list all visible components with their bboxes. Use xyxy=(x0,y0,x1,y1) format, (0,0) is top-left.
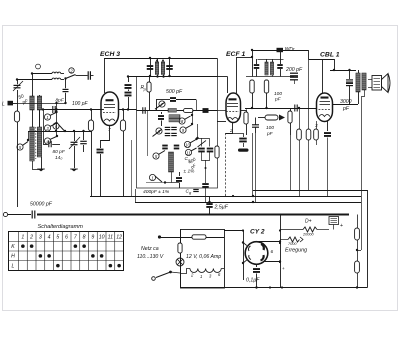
tube CBL1 electrodes xyxy=(320,101,331,103)
wire padder top xyxy=(196,137,198,139)
component field coil plus xyxy=(329,217,339,225)
wire osc bottom interior xyxy=(146,182,165,184)
resistor grid leak CBL1 xyxy=(288,111,292,123)
svg-text:1: 1 xyxy=(46,115,48,120)
coil L1 primary xyxy=(30,96,34,110)
capacitor arrow diode xyxy=(279,115,285,121)
terminal antenna earth xyxy=(3,212,7,216)
node divider mid xyxy=(356,249,358,251)
svg-text:1: 1 xyxy=(151,175,153,180)
resistor field 20000 xyxy=(303,227,317,232)
coil osc tank xyxy=(169,152,174,172)
svg-text:ECH 3: ECH 3 xyxy=(100,51,120,58)
ground L2 xyxy=(38,169,44,171)
svg-text:K: K xyxy=(11,244,15,250)
wire ECF1 screen resistor xyxy=(241,110,247,112)
wire mid drop x131 xyxy=(131,140,133,196)
coil IFT2 winding b xyxy=(270,62,273,75)
wire antenna top lower y79.5 xyxy=(17,79,52,81)
svg-text:1: 1 xyxy=(21,234,24,240)
wire osc mid vertical xyxy=(192,111,194,125)
wire IFT1 bottom xyxy=(128,76,185,78)
tube CY2 anodes xyxy=(261,244,264,250)
coil output transformer primary xyxy=(358,70,360,73)
switch 5 xyxy=(17,144,23,150)
wire heavy ground bus xyxy=(37,213,349,215)
wire right column xyxy=(357,214,359,216)
svg-text:100: 100 xyxy=(274,91,282,97)
coil IFT1 primary xyxy=(157,58,159,62)
capacitor ECH3 cathode bypass xyxy=(97,149,104,151)
coil antenna coupling upper xyxy=(52,72,61,73)
node switch stack xyxy=(42,108,44,110)
node bottom right xyxy=(356,286,358,288)
wire rail verticals xyxy=(135,189,137,202)
capacitor IFT1 trimmer left xyxy=(150,58,152,76)
coil IFT2 winding a xyxy=(265,62,268,75)
capacitor fixed pad xyxy=(80,140,87,142)
svg-text:+: + xyxy=(340,223,343,229)
coil osc coupling xyxy=(168,109,177,113)
wire ECF1 plate xyxy=(236,57,238,93)
box oscillator section xyxy=(137,77,218,189)
wire erregung drop xyxy=(280,275,330,277)
capacitor IFT1 trimmer right xyxy=(169,58,171,76)
capacitor osc series xyxy=(142,107,144,114)
resistor IFT2 right xyxy=(264,80,268,93)
resistor IFT2 left xyxy=(252,77,254,81)
wire grid line CBL1 xyxy=(245,108,317,110)
resistor ECH3 left bias xyxy=(91,110,93,121)
capacitor 8pF xyxy=(63,88,69,90)
svg-text:3000: 3000 xyxy=(340,99,352,105)
coil L2 primary xyxy=(30,127,34,161)
svg-text:± 1%: ± 1% xyxy=(184,169,196,175)
resistor CBL1 bias 2 xyxy=(308,59,310,129)
wire ECH3 plate to IFT xyxy=(104,58,106,93)
wire output top y70 xyxy=(334,59,336,70)
wire CY2 anode right xyxy=(259,241,281,243)
wire ECH3 cathode xyxy=(101,126,110,149)
wire grid y109 xyxy=(43,109,102,111)
capacitor 3000pF xyxy=(349,70,351,79)
ground ECF1 cathode blob xyxy=(238,149,249,152)
wire transformer to rectifier xyxy=(224,230,243,232)
coil tracking upper xyxy=(169,115,180,118)
capacitor grid blocking stack xyxy=(128,77,130,83)
lamp dial xyxy=(176,258,184,266)
speaker xyxy=(372,76,382,91)
wire switch common xyxy=(56,103,58,136)
tube ECF1 envelope xyxy=(226,93,241,123)
svg-text:5: 5 xyxy=(56,234,59,240)
capacitor coupling CBL1 xyxy=(294,105,296,112)
coil L2 secondary xyxy=(37,127,41,157)
svg-text:1: 1 xyxy=(200,274,202,279)
wire IFT2 verticals xyxy=(252,50,254,77)
svg-text:+: + xyxy=(282,266,285,271)
switch 3 band xyxy=(44,125,50,131)
capacitor osc to ground xyxy=(202,183,209,185)
wire choke top y50 xyxy=(252,50,295,52)
switch mains xyxy=(169,271,172,274)
svg-text:H: H xyxy=(11,254,15,260)
svg-text:2,5µF: 2,5µF xyxy=(214,205,229,211)
svg-text:100 pF: 100 pF xyxy=(72,101,89,107)
svg-text:10: 10 xyxy=(185,142,190,147)
wire ECH3 out xyxy=(118,109,137,111)
capacitor 100pF lower xyxy=(252,124,259,126)
svg-text:6: 6 xyxy=(271,249,274,255)
svg-text:10: 10 xyxy=(99,234,105,240)
capacitor trimmer variable xyxy=(71,141,78,143)
coil L1 secondary xyxy=(37,96,41,110)
wire CBL1 plate out xyxy=(333,104,359,106)
wire CBL1 grid stub xyxy=(316,108,319,110)
svg-text:Netz ca: Netz ca xyxy=(141,246,159,252)
svg-text:0,1µF: 0,1µF xyxy=(246,278,260,284)
svg-text:50000 pF: 50000 pF xyxy=(30,202,53,208)
wire bottom of band switch xyxy=(28,131,91,133)
svg-text:CBL 1: CBL 1 xyxy=(320,52,340,59)
switch marker circle a xyxy=(36,64,41,69)
resistor field divider upper xyxy=(357,215,359,229)
svg-text:14₀: 14₀ xyxy=(55,155,62,161)
node switch 2 pivot xyxy=(64,77,66,79)
switch 2 wave change xyxy=(69,68,74,73)
box power transformer xyxy=(181,230,225,289)
core L2 dashes xyxy=(35,127,37,159)
wire right feed column xyxy=(280,215,282,288)
coil tracking lower xyxy=(169,119,180,122)
svg-text:110...130 V: 110...130 V xyxy=(137,254,164,260)
capacitor tank bottom xyxy=(179,172,181,176)
switch 6 xyxy=(53,123,59,129)
svg-text:80 pF: 80 pF xyxy=(53,149,66,155)
wire IFT2 bottom xyxy=(246,76,294,78)
resistor osc right edge xyxy=(215,146,219,158)
resistor 7000 erregung xyxy=(288,237,300,242)
terminal mains xyxy=(158,235,161,238)
wire padder bottom xyxy=(202,152,210,161)
wire IFT1 top y58 xyxy=(104,58,218,60)
resistor CBL1 bias 1 xyxy=(299,108,301,129)
switch 6 osc xyxy=(156,128,162,134)
wire grid feed ECF1 xyxy=(185,76,217,78)
capacitor tank pair xyxy=(162,145,168,147)
switch 7 osc xyxy=(159,101,165,107)
svg-text:pF: pF xyxy=(274,97,282,103)
capacitor 50000pF xyxy=(31,211,33,219)
svg-text:Schalterdiagramm: Schalterdiagramm xyxy=(38,224,84,230)
resistor lamp dropper xyxy=(180,237,182,243)
wire rail y190 xyxy=(253,191,368,288)
tube CY2 filament xyxy=(248,246,250,251)
coil output transformer secondary xyxy=(362,73,366,90)
svg-text:100: 100 xyxy=(266,125,274,131)
tube CY2 envelope xyxy=(245,242,268,265)
coil IFT1 secondary xyxy=(163,58,165,62)
resistor field divider lower xyxy=(355,261,360,273)
svg-text:WDr: WDr xyxy=(285,47,295,53)
wire bottom return xyxy=(180,287,368,289)
svg-text:CY 2: CY 2 xyxy=(250,229,265,236)
table switch diagram xyxy=(9,232,124,271)
resistor diode load oval xyxy=(265,115,278,120)
svg-text:ECF 1: ECF 1 xyxy=(226,51,245,58)
wire switch 2 out xyxy=(76,75,88,77)
wire AVC rail y196 xyxy=(90,196,361,198)
svg-text:11: 11 xyxy=(186,150,190,155)
wire ECF1 triode plate stub xyxy=(227,77,229,94)
svg-text:9: 9 xyxy=(91,234,94,240)
wire osc row y110 xyxy=(137,110,218,112)
svg-text:20000: 20000 xyxy=(302,233,314,237)
resistor ECH3 right bias xyxy=(123,110,125,121)
capacitor padder series xyxy=(48,141,50,148)
capacitor 0,1uF CY2 xyxy=(253,268,260,270)
resistor mains fuse xyxy=(192,235,206,239)
switch 10 osc xyxy=(184,141,190,147)
switch 11 osc xyxy=(185,149,191,155)
svg-text:7000: 7000 xyxy=(288,242,297,246)
wire B+ rail y202 xyxy=(135,202,361,204)
svg-text:12: 12 xyxy=(116,234,122,240)
wire AVC drops xyxy=(252,133,254,196)
svg-text:L: L xyxy=(12,263,15,269)
svg-text:L: L xyxy=(2,102,5,108)
capacitor 200pF xyxy=(290,72,298,74)
capacitor antenna pad xyxy=(87,71,89,80)
capacitor ECF1 cathode xyxy=(226,123,233,134)
wire CY2 left pins xyxy=(243,243,247,246)
wire antenna node to switches xyxy=(17,103,66,105)
svg-text:8: 8 xyxy=(83,234,86,240)
switch 9 osc xyxy=(180,127,186,133)
svg-text:6: 6 xyxy=(65,234,68,240)
wire osc grid ECF1 xyxy=(210,110,227,112)
coil antenna coupling lower xyxy=(52,78,61,79)
tube ECF1 electrodes xyxy=(227,103,238,105)
wire ECH3 grid xyxy=(102,109,105,111)
capacitor fixed osc pad xyxy=(207,148,214,150)
capacitor padder bank B xyxy=(165,132,171,134)
wire bottom left drop xyxy=(180,229,182,288)
svg-text:D+: D+ xyxy=(305,219,312,225)
svg-text:4: 4 xyxy=(48,234,51,240)
wire speaker leads xyxy=(368,79,372,81)
wire drop 290 xyxy=(290,135,292,190)
wire antenna top upper y73.5 xyxy=(32,73,52,75)
switch 5 osc mid xyxy=(153,153,159,159)
resistor osc padder xyxy=(184,108,194,112)
wire CBL1 plate riser xyxy=(322,59,324,93)
wire antenna node vertical xyxy=(17,90,19,111)
resistor CBL1 bias 3 xyxy=(316,121,318,129)
svg-text:400pF ± 1%: 400pF ± 1% xyxy=(143,189,170,195)
svg-text:pF: pF xyxy=(342,106,350,112)
svg-text:2: 2 xyxy=(29,234,33,240)
svg-text:3: 3 xyxy=(39,234,42,240)
coil heater winding xyxy=(190,269,221,273)
svg-text:200 pF: 200 pF xyxy=(285,67,303,73)
wire IFT2 box top xyxy=(258,59,284,61)
switch 8 osc xyxy=(179,118,185,124)
capacitor IFT2 fixed xyxy=(277,64,283,66)
capacitor padder bank A xyxy=(165,126,171,128)
capacitor IFT2 trimmer xyxy=(254,64,260,66)
svg-text:500 pF: 500 pF xyxy=(166,89,183,95)
switch 13 osc lower xyxy=(149,174,155,180)
capacitor 100pF series xyxy=(52,106,54,113)
wire CY2 cathode down xyxy=(256,265,258,268)
capacitor antenna trimmer 50pF xyxy=(14,84,21,86)
switch 1 band xyxy=(44,114,50,120)
table contact dots xyxy=(21,244,25,248)
switch 4 band xyxy=(44,138,50,144)
tube ECH3 grids xyxy=(104,104,115,106)
capacitor variable osc pad xyxy=(198,148,205,150)
svg-text:12 V, 0,06 Amp: 12 V, 0,06 Amp xyxy=(186,254,221,260)
svg-text:11: 11 xyxy=(108,234,113,240)
ground trimmer xyxy=(71,169,77,171)
svg-text:Erregung: Erregung xyxy=(285,248,307,254)
resistor antenna shunt xyxy=(14,111,19,122)
tube CBL1 envelope xyxy=(317,93,333,122)
svg-text:pF: pF xyxy=(266,131,274,137)
capacitor osc left stack xyxy=(161,112,163,114)
capacitor osc dark right xyxy=(203,108,209,110)
capacitor CBL1 cathode xyxy=(327,121,329,132)
wire bottom dots xyxy=(269,286,271,288)
capacitor 2,5uF xyxy=(209,196,211,204)
wire output B+ drop xyxy=(362,90,365,250)
tube ECH3 envelope xyxy=(101,92,119,126)
choke WDr xyxy=(277,48,284,52)
